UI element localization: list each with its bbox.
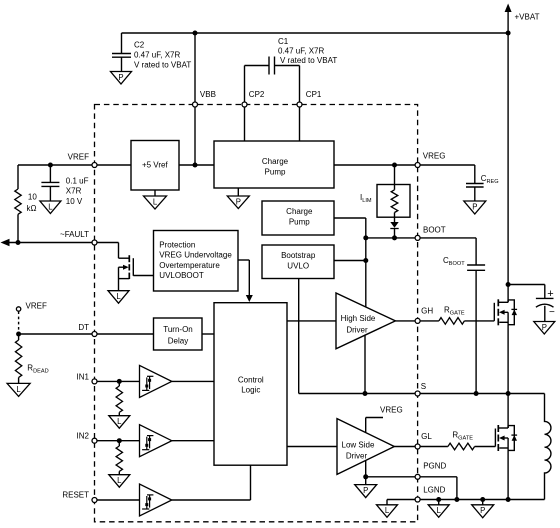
svg-text:P: P bbox=[363, 486, 368, 495]
wire high side driver output to GH bbox=[395, 320, 415, 322]
ground L below fault FET bbox=[108, 291, 129, 304]
svg-text:0.47 uF, X7R: 0.47 uF, X7R bbox=[134, 51, 180, 60]
wire low side driver output to GL bbox=[394, 446, 415, 448]
wire DT external bbox=[19, 333, 93, 335]
ground P below main charge pump bbox=[237, 188, 239, 196]
inductor load bbox=[545, 394, 551, 500]
wire VREG stub to low side driver bbox=[365, 418, 367, 433]
pin ~FAULT bbox=[92, 240, 97, 245]
wire RESET to comparator bbox=[97, 499, 140, 501]
svg-text:+5 Vref: +5 Vref bbox=[142, 161, 168, 170]
wire VREG to CREG bbox=[420, 164, 475, 166]
pin BOOT bbox=[415, 235, 420, 240]
junction IN2 pulldown bbox=[117, 438, 122, 443]
amplifier Low Side Driver bbox=[337, 419, 394, 475]
svg-text:X7R: X7R bbox=[66, 187, 82, 196]
block ILIM resistor box bbox=[377, 185, 410, 218]
svg-text:10: 10 bbox=[28, 193, 37, 202]
ground L below IN1 pulldown bbox=[109, 416, 130, 429]
wire +5Vref to charge pump bbox=[179, 164, 214, 166]
amplifier High Side Driver bbox=[336, 293, 395, 349]
pin GH bbox=[415, 318, 420, 323]
svg-text:P: P bbox=[480, 506, 485, 515]
junction top rail / VBB feed bbox=[193, 31, 198, 36]
svg-text:Driver: Driver bbox=[346, 326, 368, 335]
svg-text:0.1 uF: 0.1 uF bbox=[66, 177, 89, 186]
wire VREF rail (external) bbox=[18, 164, 92, 166]
svg-text:L: L bbox=[117, 476, 122, 485]
wire CP2 into IC bbox=[244, 107, 246, 141]
resistor IN1 pulldown bbox=[116, 386, 122, 412]
ground L left of LGND pin bbox=[386, 500, 388, 505]
svg-text:Charge: Charge bbox=[286, 207, 313, 216]
junction LGND / L ground bbox=[436, 497, 441, 502]
svg-text:V rated to VBAT: V rated to VBAT bbox=[134, 61, 191, 70]
svg-text:C2: C2 bbox=[134, 41, 145, 50]
block Charge Pump (main) bbox=[214, 141, 334, 188]
capacitor battery reservoir (polarized) bbox=[536, 297, 554, 299]
wire S to half bridge bbox=[420, 393, 545, 395]
junction VBAT / reservoir cap bbox=[506, 282, 511, 287]
svg-text:Driver: Driver bbox=[346, 451, 368, 460]
svg-text:Logic: Logic bbox=[241, 385, 260, 394]
svg-text:−: − bbox=[549, 307, 555, 318]
pin DT bbox=[92, 332, 97, 337]
svg-text:L: L bbox=[48, 202, 53, 211]
junction 10k / ~FAULT wire bbox=[16, 240, 21, 245]
block +5 Vref bbox=[131, 141, 179, 191]
diode charge pump to BOOT bbox=[390, 222, 398, 228]
wire +VBAT column bbox=[507, 33, 509, 302]
svg-text:L: L bbox=[116, 292, 121, 301]
junction BOOT column / UVLO bbox=[363, 258, 368, 263]
junction BOOT / diode branch bbox=[392, 235, 397, 240]
svg-text:+: + bbox=[547, 288, 553, 300]
svg-text:Overtemperature: Overtemperature bbox=[159, 261, 220, 270]
svg-text:L: L bbox=[385, 506, 390, 515]
comparator RESET bbox=[140, 484, 172, 516]
junction BOOT wire / column bbox=[363, 235, 368, 240]
svg-text:GH: GH bbox=[421, 307, 433, 316]
wire IN2 to comparator bbox=[97, 440, 140, 442]
pin CP1 bbox=[297, 102, 302, 107]
pin LGND bbox=[415, 497, 420, 502]
junction LGND / P ground bbox=[480, 497, 485, 502]
svg-text:Control: Control bbox=[238, 376, 264, 385]
wire to reservoir cap bbox=[508, 284, 545, 286]
dashed wire VREF option to DT bbox=[18, 311, 20, 332]
wire protection to control logic with arrow bbox=[238, 259, 249, 261]
wire BOOT net to pin bbox=[366, 237, 416, 239]
svg-text:BOOT: BOOT bbox=[423, 226, 446, 235]
svg-text:S: S bbox=[421, 382, 426, 391]
junction S / high driver ref bbox=[363, 391, 368, 396]
svg-text:CP2: CP2 bbox=[249, 90, 265, 99]
block Charge Pump (bootstrap) bbox=[262, 201, 334, 235]
wire IN2 comparator to control logic bbox=[172, 440, 214, 442]
block Protection bbox=[154, 231, 239, 292]
svg-text:UVLOBOOT: UVLOBOOT bbox=[159, 271, 204, 280]
junction VREF / 0.1uF cap bbox=[48, 163, 53, 168]
svg-text:L: L bbox=[16, 385, 21, 394]
IC boundary dashed box bbox=[95, 105, 418, 522]
ground L below RDEAD bbox=[7, 383, 30, 396]
svg-text:P: P bbox=[236, 197, 241, 206]
svg-text:10 V: 10 V bbox=[66, 197, 83, 206]
svg-text:RESET: RESET bbox=[62, 491, 89, 500]
svg-text:UVLO: UVLO bbox=[287, 262, 309, 271]
off-page arrow ~FAULT bbox=[1, 239, 10, 247]
svg-text:L: L bbox=[117, 417, 122, 426]
svg-text:Turn-On: Turn-On bbox=[163, 325, 193, 334]
svg-text:0.47 uF, X7R: 0.47 uF, X7R bbox=[278, 47, 324, 56]
svg-text:L: L bbox=[153, 197, 158, 206]
ground P below low side driver bbox=[365, 477, 367, 485]
svg-text:Charge: Charge bbox=[262, 157, 289, 166]
wire control logic to low side driver bbox=[287, 446, 337, 448]
wire PGND to ground return bbox=[420, 476, 457, 478]
svg-text:kΩ: kΩ bbox=[27, 204, 37, 213]
capacitor C1 (flying cap) bbox=[268, 57, 270, 75]
svg-text:P: P bbox=[118, 73, 123, 82]
pin VREG bbox=[415, 163, 420, 168]
wire DT to turn-on delay bbox=[97, 333, 154, 335]
svg-text:+VBAT: +VBAT bbox=[515, 13, 540, 22]
ground P below C2 bbox=[111, 72, 132, 85]
wire BOOT to CBOOT bbox=[420, 237, 476, 239]
svg-text:IN1: IN1 bbox=[77, 373, 90, 382]
wire RGATE to high FET gate bbox=[464, 320, 494, 322]
capacitor CREG bbox=[466, 183, 484, 185]
wire bootstrap UVLO to BOOT column bbox=[334, 260, 366, 262]
capacitor 0.1 uF bbox=[49, 165, 51, 182]
svg-text:VREG Undervoltage: VREG Undervoltage bbox=[159, 251, 232, 260]
svg-text:VREF: VREF bbox=[26, 302, 47, 311]
resistor IN2 pulldown bbox=[118, 441, 120, 446]
junction S / half-bridge midpoint bbox=[506, 391, 511, 396]
wire GH to RGATE bbox=[420, 320, 439, 322]
pin RESET bbox=[92, 498, 97, 503]
ground L below IN2 pulldown bbox=[109, 475, 130, 488]
resistor ILIM bbox=[394, 185, 396, 190]
svg-text:Pump: Pump bbox=[289, 217, 310, 226]
ground P below LGND wire bbox=[482, 500, 484, 505]
pin PGND bbox=[415, 474, 420, 479]
pin IN1 bbox=[92, 379, 97, 384]
ground P below reservoir cap bbox=[534, 322, 555, 335]
ground L below 0.1uF cap bbox=[40, 201, 61, 214]
junction LGND / PGND return bbox=[454, 497, 459, 502]
resistor 10 kOhm bbox=[17, 165, 19, 189]
comparator IN2 bbox=[140, 425, 172, 457]
wire VBB pin into IC bbox=[194, 107, 196, 165]
wire ~FAULT (external) bbox=[9, 242, 92, 244]
wire RESET comparator to control logic bbox=[172, 499, 251, 501]
svg-text:Pump: Pump bbox=[265, 167, 286, 176]
junction DT / RDEAD bbox=[16, 332, 21, 337]
wire GL to RGATE bbox=[420, 446, 448, 448]
wire +VBAT top rail bbox=[122, 32, 509, 34]
wire high FET source to S bbox=[507, 325, 509, 394]
wire IN1 comparator to control logic bbox=[172, 380, 214, 382]
junction VBB / VREF wire bbox=[193, 163, 198, 168]
wire LGND stub left bbox=[387, 499, 415, 501]
svg-text:VREF: VREF bbox=[68, 153, 89, 162]
pin IN2 bbox=[92, 438, 97, 443]
svg-text:DT: DT bbox=[78, 323, 89, 332]
ground P below CREG bbox=[464, 201, 486, 214]
wire VBB feed bbox=[194, 33, 196, 102]
svg-text:P: P bbox=[542, 323, 547, 332]
svg-text:VREG: VREG bbox=[423, 152, 446, 161]
pin CP2 bbox=[242, 102, 247, 107]
svg-text:Protection: Protection bbox=[159, 240, 195, 249]
wire VREG to ILIM resistor bbox=[394, 165, 396, 185]
transistor high side MOSFET bbox=[493, 303, 495, 321]
svg-text:C1: C1 bbox=[278, 37, 289, 46]
wire bootstrap UVLO sense to S net bbox=[298, 279, 300, 394]
wire VREF pin to +5Vref block bbox=[97, 164, 131, 166]
junction S / CBOOT bbox=[474, 391, 479, 396]
junction top rail / +VBAT column bbox=[506, 31, 511, 36]
wire IN1 to comparator bbox=[97, 380, 140, 382]
svg-text:IN2: IN2 bbox=[77, 432, 90, 441]
resistor RDEAD bbox=[18, 334, 20, 340]
wire LGND net right bbox=[420, 499, 545, 501]
ground L below +5Vref bbox=[154, 190, 156, 196]
junction IN1 pulldown bbox=[117, 379, 122, 384]
pin GL bbox=[415, 444, 420, 449]
wire charge pump output to VREG pin bbox=[334, 164, 415, 166]
block Bootstrap UVLO bbox=[262, 245, 334, 279]
svg-text:Bootstrap: Bootstrap bbox=[281, 251, 316, 260]
wire CP1 into IC bbox=[299, 107, 301, 141]
svg-text:V rated to VBAT: V rated to VBAT bbox=[280, 56, 337, 65]
junction LGND / low FET source bbox=[506, 497, 511, 502]
pin S bbox=[415, 391, 420, 396]
transistor fault pull-down FET bbox=[132, 258, 134, 276]
wire turn-on delay to control logic bbox=[202, 333, 214, 335]
wire C1 to CP1 bbox=[299, 66, 301, 103]
svg-text:VBB: VBB bbox=[200, 90, 216, 99]
svg-text:High Side: High Side bbox=[341, 314, 376, 323]
capacitor C2 bbox=[121, 33, 123, 54]
wire CBOOT to S net bbox=[475, 270, 477, 393]
block Control Logic bbox=[214, 303, 287, 466]
transistor low side MOSFET bbox=[494, 429, 496, 447]
junction VREG wire / current limit branch bbox=[392, 163, 397, 168]
wire ~FAULT to fault FET drain bbox=[97, 242, 119, 244]
wire bootstrap charge pump to BOOT net bbox=[334, 217, 366, 219]
svg-text:Low Side: Low Side bbox=[342, 441, 375, 450]
wire S net bbox=[299, 393, 416, 395]
wire low FET source to LGND bbox=[507, 450, 509, 499]
svg-text:~FAULT: ~FAULT bbox=[60, 230, 89, 239]
resistor RGATE (low side) bbox=[448, 443, 475, 450]
pin VREF bbox=[92, 163, 97, 168]
junction PGND / driver ref bbox=[363, 474, 368, 479]
capacitor CBOOT bbox=[467, 264, 485, 266]
wire C1 to CP2 bbox=[244, 66, 246, 103]
wire BOOT column down to high side driver bbox=[365, 238, 367, 307]
svg-text:Delay: Delay bbox=[168, 337, 188, 346]
svg-text:CP1: CP1 bbox=[306, 90, 322, 99]
wire low FET drain to S bbox=[507, 394, 509, 429]
svg-text:L: L bbox=[437, 506, 442, 515]
wire RGATE to low FET gate bbox=[475, 446, 496, 448]
comparator IN1 bbox=[140, 365, 172, 397]
svg-text:P: P bbox=[472, 202, 477, 211]
block Turn-On Delay bbox=[154, 318, 203, 350]
wire low side driver reference to PGND bbox=[365, 460, 367, 476]
ground L below LGND wire bbox=[438, 500, 440, 505]
terminal VREF (dead time) bbox=[16, 307, 20, 311]
wire high side driver reference to S bbox=[364, 335, 366, 394]
svg-text:LGND: LGND bbox=[423, 486, 445, 495]
svg-text:PGND: PGND bbox=[423, 462, 446, 471]
wire control logic to high side driver bbox=[287, 320, 336, 322]
svg-text:GL: GL bbox=[421, 432, 432, 441]
svg-text:VREG: VREG bbox=[380, 406, 403, 415]
pin VBB bbox=[193, 102, 198, 107]
power flag +VBAT arrow bbox=[507, 11, 509, 33]
resistor RGATE (high side) bbox=[439, 318, 465, 325]
wire PGND net bbox=[366, 476, 416, 478]
